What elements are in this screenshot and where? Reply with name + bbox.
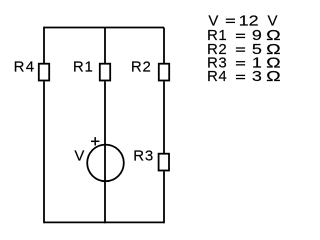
resistor R2 [159, 64, 169, 81]
wire left branch lower [43, 82, 45, 224]
label R2 [131, 58, 152, 75]
wire middle branch lower [104, 82, 106, 224]
voltage source V [87, 145, 124, 182]
label R1 [73, 58, 94, 75]
resistor R4 [39, 64, 49, 81]
plus polarity mark [91, 137, 99, 145]
bottom wire [44, 221, 164, 223]
label R3 [133, 148, 154, 165]
wire right branch middle [163, 82, 165, 154]
svg-text:R3: R3 [133, 148, 154, 165]
wire left branch upper [43, 27, 45, 64]
top wire [44, 27, 164, 29]
value line R3 = 1 ohm [207, 55, 281, 72]
wire right branch lower [163, 171, 165, 223]
svg-text:R1: R1 [73, 58, 94, 75]
label R4 [14, 58, 36, 75]
resistor R1 [100, 64, 110, 81]
svg-text:Ω: Ω [266, 68, 281, 85]
wire right branch upper [163, 28, 165, 64]
svg-text:R4: R4 [14, 58, 36, 75]
value line R1 = 9 ohm [207, 27, 281, 44]
label V [74, 148, 84, 165]
value line R2 = 5 ohm [207, 41, 281, 58]
svg-text:V: V [74, 148, 84, 165]
svg-text:R4: R4 [207, 68, 227, 85]
svg-text:R2: R2 [131, 58, 152, 75]
svg-text:1: 1 [239, 13, 249, 30]
value line V = 12 V [208, 13, 277, 30]
value line R4 = 3 ohm [207, 68, 281, 85]
svg-text:3: 3 [252, 68, 262, 85]
wire middle branch upper [104, 28, 106, 64]
resistor R3 [159, 154, 169, 171]
